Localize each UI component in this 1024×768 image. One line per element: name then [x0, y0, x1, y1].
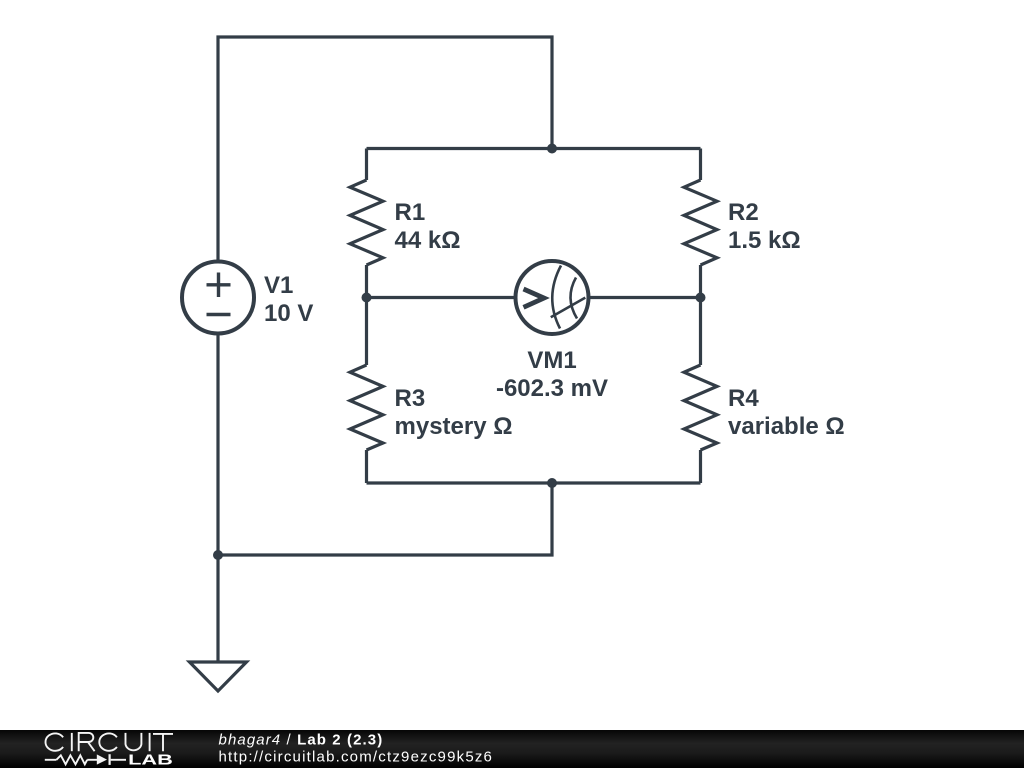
- svg-text:10 V: 10 V: [264, 300, 313, 327]
- wire middle rail right (voltmeter to node): [587, 296, 701, 299]
- wire from V1 top up, across top rail, down to bridge top: [218, 37, 552, 300]
- svg-text:-602.3 mV: -602.3 mV: [496, 375, 608, 402]
- svg-text:R2: R2: [728, 199, 759, 226]
- footer black bar: [0, 730, 1024, 768]
- CircuitLab logo LAB text: [128, 751, 173, 767]
- CircuitLab logo resistor-diode squiggle: [45, 754, 126, 765]
- resistor R3 zigzag: [350, 365, 383, 450]
- wire from bottom node down and left to ground column: [218, 483, 552, 555]
- voltmeter VM1 dial arc large: [552, 266, 561, 329]
- node junction middle left: [362, 293, 372, 303]
- resistor R4 lead top: [699, 298, 702, 366]
- node junction bottom of bridge: [547, 478, 557, 488]
- wire V1 bottom to ground: [216, 300, 219, 662]
- voltmeter VM1 rotated V glyph: [524, 289, 545, 307]
- node junction at ground column: [213, 550, 223, 560]
- resistor R1 zigzag: [350, 180, 383, 265]
- wire bridge top rail: [367, 147, 701, 150]
- svg-text:bhagar4 / Lab 2 (2.3): bhagar4 / Lab 2 (2.3): [219, 732, 384, 749]
- svg-text:R1: R1: [395, 199, 426, 226]
- svg-text:variable Ω: variable Ω: [728, 413, 845, 440]
- wire bottom rail: [367, 481, 701, 484]
- svg-text:1.5 kΩ: 1.5 kΩ: [728, 227, 801, 254]
- resistor R1 lead bottom: [365, 265, 368, 298]
- CircuitLab logo CIRCUIT letters: [45, 733, 173, 751]
- svg-text:VM1: VM1: [527, 347, 576, 374]
- svg-text:LAB: LAB: [128, 751, 173, 767]
- resistor R2 zigzag: [684, 180, 717, 265]
- svg-text:R4: R4: [728, 385, 759, 412]
- resistor R1 lead top: [365, 149, 368, 181]
- svg-text:V1: V1: [264, 272, 293, 299]
- voltmeter VM1 needle: [551, 298, 586, 318]
- resistor R4 lead bottom: [699, 450, 702, 483]
- V1 minus sign: [207, 313, 231, 316]
- resistor R4 zigzag: [684, 365, 717, 450]
- resistor R3 lead top: [365, 298, 368, 366]
- resistor R3 lead bottom: [365, 450, 368, 483]
- V1 plus sign: [207, 273, 231, 298]
- resistor R2 lead bottom: [699, 265, 702, 298]
- voltmeter VM1 dial arc small: [570, 278, 577, 319]
- voltage source V1 circle: [182, 262, 254, 334]
- voltmeter VM1 circle: [516, 261, 589, 334]
- ground symbol: [190, 662, 247, 691]
- svg-text:44 kΩ: 44 kΩ: [395, 227, 461, 254]
- svg-text:mystery Ω: mystery Ω: [395, 413, 513, 440]
- svg-text:R3: R3: [395, 385, 426, 412]
- node junction middle right: [696, 293, 706, 303]
- wire middle rail left (node to voltmeter): [367, 296, 518, 299]
- resistor R2 lead top: [699, 149, 702, 181]
- svg-text:http://circuitlab.com/ctz9ezc9: http://circuitlab.com/ctz9ezc99k5z6: [219, 748, 494, 765]
- node junction top of bridge: [547, 144, 557, 154]
